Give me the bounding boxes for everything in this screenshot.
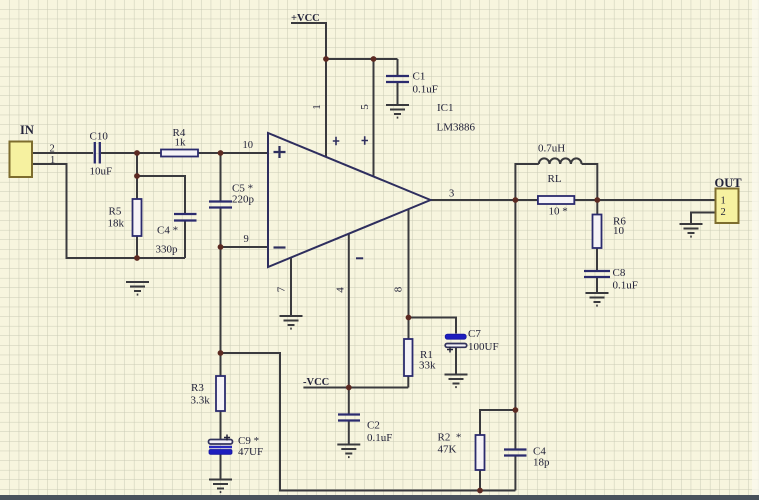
pin number 2 of OUT: [721, 207, 726, 218]
resistor R6 body: [593, 215, 602, 249]
svg-text:C10: C10: [90, 131, 109, 143]
value 47K: [438, 444, 457, 456]
pin number 10: [243, 140, 254, 151]
wire -VCC rail: [303, 387, 408, 389]
wire node F to C4 18p top: [514, 410, 516, 449]
wire -VCC node to C2 top: [348, 388, 350, 414]
wire op-amp pin 5 from VCC rail: [373, 59, 375, 177]
capacitor C1 plates: [386, 76, 409, 82]
value 0.1uF of C2: [367, 432, 392, 444]
svg-text:RL: RL: [548, 173, 562, 185]
resistor R5 body: [133, 199, 142, 236]
junction output node at inductor right: [594, 197, 600, 203]
svg-text:R3: R3: [191, 382, 204, 394]
value 0.7uH: [538, 143, 565, 155]
ground below C8: [586, 293, 609, 306]
pin number 8 rotated: [393, 286, 405, 292]
wire C10 to R4: [101, 152, 161, 154]
wire C1 top lead: [397, 59, 399, 75]
wire R5 bottom to ground node: [136, 236, 138, 258]
wire pin9 node to op-amp inverting input: [221, 246, 269, 248]
photo bottom edge bar: [0, 495, 759, 500]
wire feedback bottom run node D to R2/C4 bottom rail: [221, 353, 516, 491]
wire C4 18p bottom to bottom rail: [514, 457, 516, 491]
pin number 1 of IN: [50, 155, 55, 166]
wire C8 bottom to ground: [596, 278, 598, 293]
ground below op-amp pin 7: [280, 316, 303, 329]
value 330p: [156, 244, 179, 256]
svg-text:10: 10: [243, 140, 254, 151]
svg-text:1k: 1k: [175, 137, 187, 149]
svg-text:LM3886: LM3886: [437, 122, 476, 134]
capacitor C8 plates: [584, 271, 610, 277]
svg-text:C8: C8: [613, 267, 626, 279]
svg-text:+VCC: +VCC: [291, 13, 320, 24]
resistor R3 body: [216, 376, 225, 411]
svg-text:2: 2: [721, 207, 726, 218]
wire C2 bottom to ground: [348, 422, 350, 445]
svg-text:8: 8: [393, 286, 405, 292]
capacitor C4 330p plates: [174, 214, 197, 221]
label C1: [413, 71, 426, 83]
wire +VCC drop: [291, 23, 326, 59]
label C4 330p: [157, 225, 178, 237]
ground below C2: [337, 445, 360, 458]
svg-text:0.1uF: 0.1uF: [613, 280, 638, 292]
svg-text:IC1: IC1: [437, 102, 454, 114]
svg-text:47UF: 47UF: [238, 446, 263, 458]
svg-text:18k: 18k: [108, 218, 125, 230]
wire op-amp pin 1 from VCC rail: [325, 59, 327, 157]
wire C4 bottom to ground node: [184, 222, 186, 259]
junction node F R2/C4 top: [513, 407, 519, 413]
svg-text:C1: C1: [413, 71, 426, 83]
junction output node at inductor left: [513, 197, 519, 203]
svg-text:4: 4: [335, 287, 347, 293]
svg-text:1: 1: [721, 196, 726, 207]
wire +VCC rail to C1: [326, 58, 398, 60]
pin number 1 rotated: [311, 104, 323, 110]
value 0.1uF of C1: [413, 84, 438, 96]
wire C9 bottom to ground: [220, 454, 222, 479]
svg-text:C7: C7: [468, 328, 481, 340]
wire IN pin2 to C10: [32, 152, 93, 154]
junction R2 bottom rail: [477, 488, 483, 494]
junction node B R5/C4 top: [134, 173, 140, 179]
junction +VCC pin1: [323, 56, 329, 62]
wire node E to R1 top: [408, 318, 410, 340]
svg-text:7: 7: [276, 286, 288, 292]
ground at OUT pin 2: [680, 224, 703, 237]
pin number 4 rotated: [335, 287, 347, 293]
wire pin9 node down to feedback node D: [220, 247, 222, 353]
pin number 9: [244, 234, 249, 245]
svg-text:33k: 33k: [419, 360, 436, 372]
label IN: [20, 123, 34, 137]
value 18k: [108, 218, 125, 230]
op-amp inverting input minus mark: [274, 246, 286, 248]
C7 plus polarity mark: [447, 347, 453, 353]
label R1: [420, 349, 433, 361]
wire R2 bottom to bottom rail: [479, 470, 481, 491]
label C2: [367, 420, 380, 432]
svg-text:5: 5: [359, 104, 371, 110]
wire inductor branch over RL: [515, 164, 597, 200]
wire op-amp pin 7 to ground: [290, 258, 292, 316]
label C7: [468, 328, 481, 340]
wire R6 top lead: [596, 200, 598, 215]
ground below C7: [445, 375, 468, 388]
wire op-amp pin 4 to -VCC rail: [348, 234, 350, 388]
wire node C to C5 top: [220, 153, 222, 201]
label OUT: [715, 176, 743, 190]
svg-text:0.1uF: 0.1uF: [413, 84, 438, 96]
capacitor C7 polarized electrolytic: [445, 334, 467, 347]
pin number 7 rotated: [276, 286, 288, 292]
svg-text:C2: C2: [367, 420, 380, 432]
label C10: [90, 131, 109, 143]
value 1k: [175, 137, 187, 149]
wire RL right to OUT connector: [574, 199, 715, 201]
svg-text:10: 10: [613, 225, 625, 237]
wire op-amp output pin 3 to RL: [431, 199, 538, 201]
svg-text:3.3k: 3.3k: [191, 395, 211, 407]
value 220p: [232, 194, 255, 206]
wire node F left and down to R2: [480, 410, 515, 435]
label R6: [613, 216, 626, 228]
svg-text:2: 2: [50, 144, 55, 155]
power net +VCC: [291, 13, 320, 24]
svg-text:C4 *: C4 *: [157, 225, 178, 237]
svg-text:R5: R5: [109, 206, 122, 218]
capacitor C4 18p plates: [504, 450, 527, 456]
value 47UF: [238, 446, 263, 458]
svg-text:R2 *: R2 *: [438, 432, 462, 444]
label C4 18p: [533, 446, 546, 458]
op-amp noninverting input plus mark: [274, 146, 286, 158]
inductor L 0.7uH coil: [539, 158, 582, 164]
pin number 3: [449, 189, 454, 200]
svg-text:0.1uF: 0.1uF: [367, 432, 392, 444]
wire OUT pin2 to ground: [691, 213, 716, 224]
svg-text:47K: 47K: [438, 444, 457, 456]
resistor RL body: [538, 196, 574, 204]
wire R4 to op-amp noninverting input (pin 10): [198, 152, 268, 154]
op-amp V+ plus mark near pin 5: [362, 136, 369, 144]
pin number 5 rotated: [359, 104, 371, 110]
svg-text:9: 9: [244, 234, 249, 245]
wire C7 bottom to ground: [455, 348, 457, 375]
svg-text:100UF: 100UF: [468, 341, 499, 353]
op-amp V+ plus mark near pin 1: [333, 137, 340, 145]
value 100UF: [468, 341, 499, 353]
svg-text:IN: IN: [20, 123, 34, 137]
connector J-IN: [10, 142, 33, 178]
wire C1 bottom lead to ground: [397, 83, 399, 105]
junction pin9/C5 node: [218, 244, 224, 250]
capacitor C9 polarized electrolytic: [209, 440, 233, 455]
label C5: [232, 183, 253, 195]
capacitor C10 plates: [95, 142, 100, 164]
junction +VCC pin5: [371, 56, 377, 62]
wire op-amp pin 8 down to node E: [408, 209, 410, 318]
value 33k: [419, 360, 436, 372]
svg-text:18p: 18p: [533, 457, 550, 469]
value 3.3k: [191, 395, 211, 407]
junction node A at C10/R5: [134, 150, 140, 156]
value 18p: [533, 457, 550, 469]
wire output node down to node F: [514, 200, 516, 410]
value 0.1uF of C8: [613, 280, 638, 292]
label C8: [613, 267, 626, 279]
op-amp U1 LM3886 triangle: [268, 133, 431, 267]
svg-text:10uF: 10uF: [90, 166, 113, 178]
value 10 * of RL: [549, 206, 568, 218]
label RL: [548, 173, 562, 185]
capacitor C2 plates: [338, 415, 360, 421]
label C9: [238, 435, 259, 447]
resistor R4 body: [161, 150, 198, 157]
wire node A to R5 top: [136, 153, 138, 199]
junction R5 bottom ground node: [134, 255, 140, 261]
svg-text:0.7uH: 0.7uH: [538, 143, 565, 155]
value 10 of R6: [613, 225, 625, 237]
wire IN pin1 down and right to R5 ground node: [32, 164, 185, 258]
svg-text:220p: 220p: [232, 194, 255, 206]
ground below C9: [209, 480, 232, 493]
pin number 1 of OUT: [721, 196, 726, 207]
junction node D feedback/R3: [218, 350, 224, 356]
label R3: [191, 382, 204, 394]
wire C5 bottom to pin9 node: [220, 209, 222, 248]
junction node C at R4/C5: [218, 150, 224, 156]
ground below R5: [126, 282, 149, 295]
wire R3 bottom to C9: [220, 411, 222, 440]
svg-text:3: 3: [449, 189, 454, 200]
svg-text:1: 1: [50, 155, 55, 166]
ground below C1: [386, 105, 409, 118]
label R5: [109, 206, 122, 218]
value 10uF: [90, 166, 113, 178]
junction -VCC pin4/C2: [346, 385, 352, 391]
capacitor C5 plates: [209, 202, 232, 208]
svg-text:1: 1: [311, 104, 323, 110]
wire node E to C7: [409, 318, 457, 334]
label R2: [438, 432, 462, 444]
wire R6 bottom to C8: [596, 248, 598, 270]
resistor R2 body: [476, 435, 485, 470]
C9 plus polarity mark: [224, 435, 230, 441]
svg-text:OUT: OUT: [715, 176, 743, 190]
wire node D to R3 top: [220, 353, 222, 376]
wire C4 branch from node B: [137, 176, 185, 213]
connector J-OUT: [716, 189, 739, 224]
junction node E pin8/R1/C7: [406, 315, 412, 321]
op-amp V- minus mark near pin 4: [356, 257, 363, 259]
resistor R1 body: [404, 339, 413, 376]
svg-text:330p: 330p: [156, 244, 179, 256]
label IC1: [437, 102, 454, 114]
svg-text:-VCC: -VCC: [303, 377, 329, 388]
power net -VCC: [303, 377, 329, 388]
pin number 2 of IN: [50, 144, 55, 155]
value LM3886: [437, 122, 476, 134]
wire R1 bottom to -VCC rail: [407, 376, 409, 388]
svg-text:10 *: 10 *: [549, 206, 568, 218]
label R4: [173, 127, 186, 139]
